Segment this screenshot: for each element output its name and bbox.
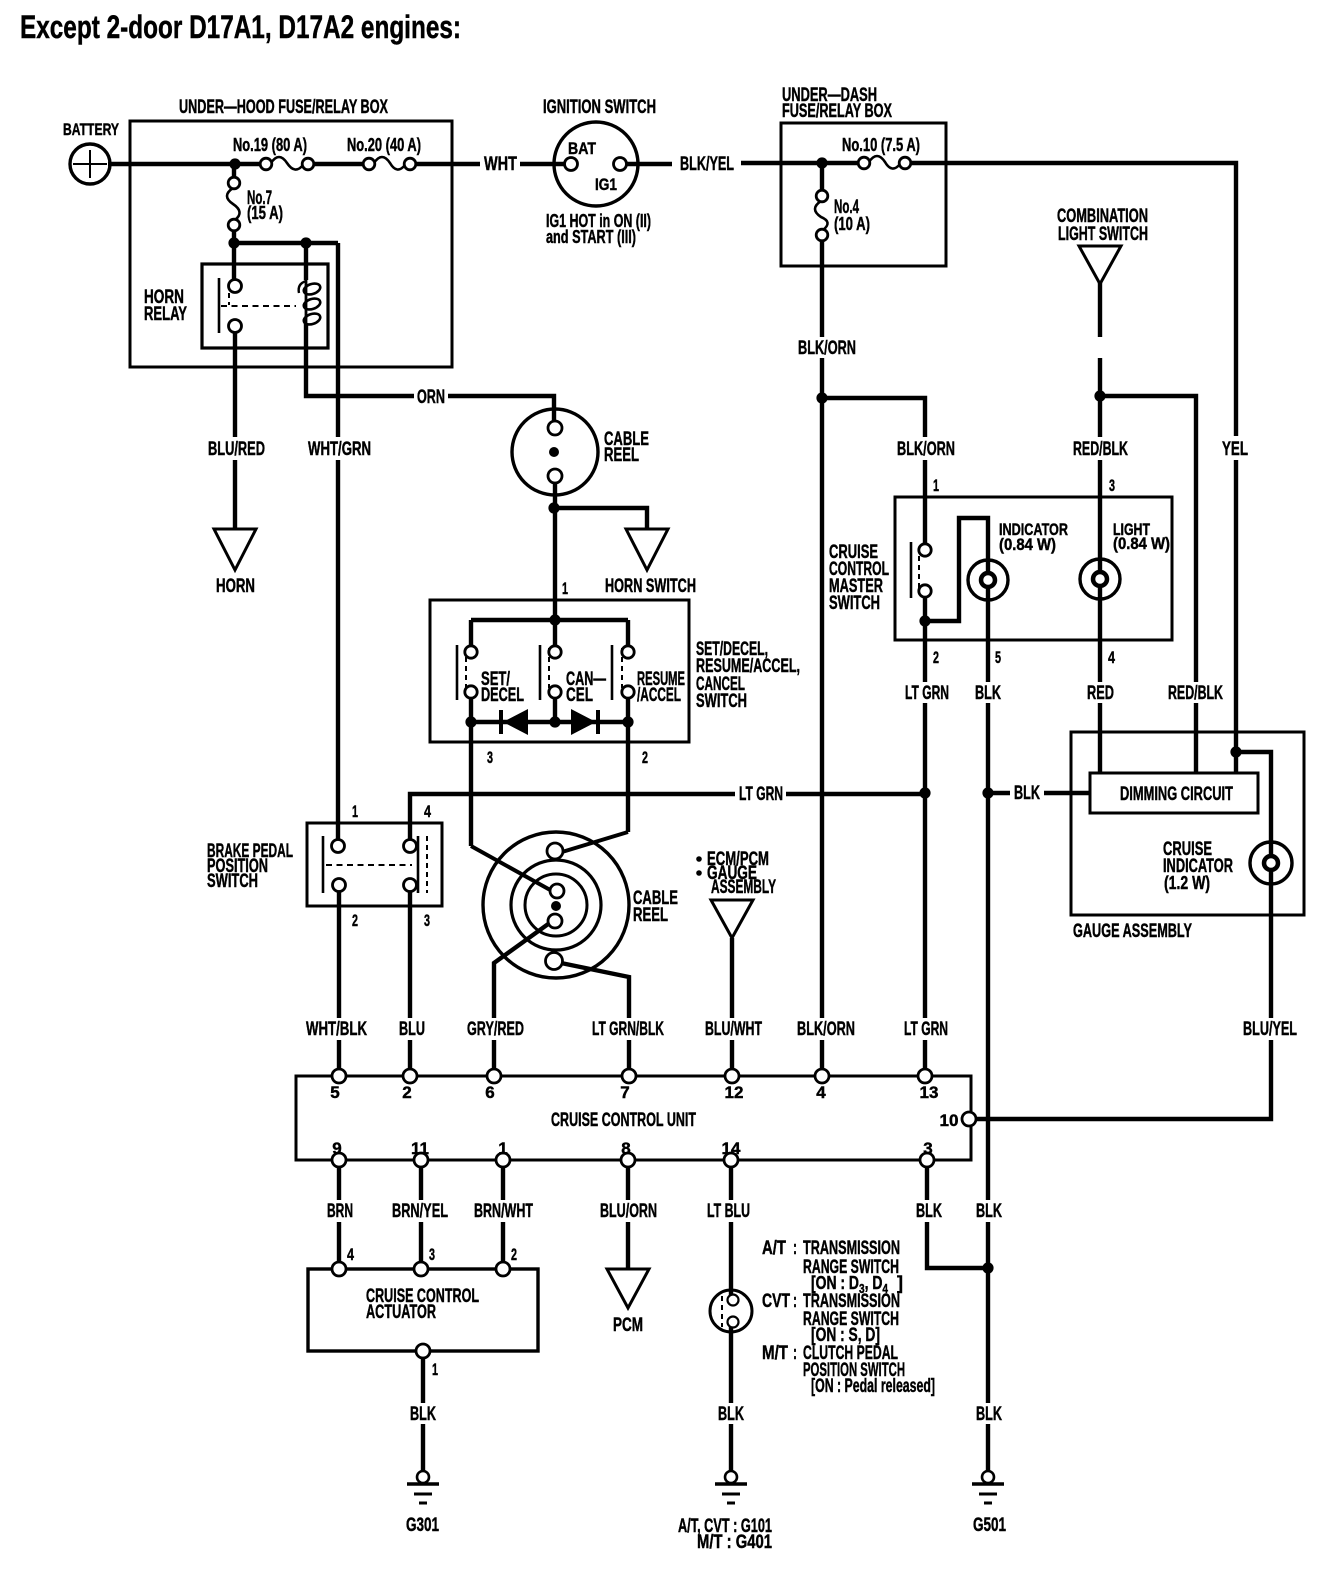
svg-text:2: 2	[642, 748, 648, 767]
switch bar SET/DECEL	[456, 645, 459, 700]
svg-text:ACTUATOR: ACTUATOR	[366, 1302, 436, 1323]
svg-text:14: 14	[722, 1139, 741, 1158]
svg-text:RED/BLK: RED/BLK	[1168, 683, 1223, 704]
svg-text:LT BLU: LT BLU	[707, 1201, 750, 1222]
wire BLK label segment into dimming circuit left edge	[1044, 791, 1090, 795]
svg-text:LT GRN/BLK: LT GRN/BLK	[592, 1019, 664, 1040]
wire BLK/ORN below label into master switch pin 1	[923, 460, 927, 545]
svg-text:CEL: CEL	[566, 685, 593, 706]
wire brake switch pin4 up and LT GRN right to master switch junction	[410, 794, 735, 846]
wire BLU/YEL label down and left to unit terminal 10	[976, 1040, 1271, 1119]
svg-text:LT GRN: LT GRN	[739, 784, 783, 805]
junction node BLK / dimming	[982, 787, 993, 798]
horn relay contact pins	[229, 280, 242, 293]
svg-text:BLK/ORN: BLK/ORN	[897, 439, 955, 460]
junction node LT GRN / terminal 13	[919, 787, 930, 798]
svg-text:BATTERY: BATTERY	[63, 120, 119, 139]
wire diagonal reel center lower pin to GRY/RED	[494, 922, 551, 1018]
cruise control unit terminal 4	[815, 1069, 829, 1083]
svg-text:BLK/YEL: BLK/YEL	[680, 154, 734, 175]
cruise control unit terminal 6	[487, 1069, 501, 1083]
PCM connector triangle	[607, 1269, 649, 1308]
cruise control unit terminal 3	[920, 1153, 934, 1167]
svg-text:REEL: REEL	[604, 445, 639, 466]
cable reel C415 bottom pin	[548, 469, 562, 483]
wire BLK label to ground G101/G401	[729, 1424, 733, 1471]
combination light switch connector triangle	[1079, 246, 1121, 284]
cruise control unit box	[296, 1076, 971, 1160]
cruise control unit terminal 13	[918, 1069, 932, 1083]
svg-text:2: 2	[402, 1083, 411, 1102]
svg-text:BRN/YEL: BRN/YEL	[392, 1201, 448, 1222]
svg-text:BLK: BLK	[410, 1404, 436, 1425]
cruise control actuator box	[308, 1269, 538, 1351]
wire BLK branch right to dimming circuit	[988, 791, 1010, 795]
diode bus wire y=722	[471, 720, 628, 724]
cable reel C721 bottom pin	[546, 953, 563, 970]
svg-text:LIGHT SWITCH: LIGHT SWITCH	[1058, 224, 1148, 245]
wire BLK/ORN label to junction y=398	[820, 358, 824, 398]
svg-text:IGNITION SWITCH: IGNITION SWITCH	[543, 97, 656, 118]
brake pedal switch bar left	[322, 836, 325, 893]
svg-text:BLK: BLK	[975, 683, 1001, 704]
clutch/transmission range switch pins	[728, 1295, 739, 1306]
svg-text:BLK: BLK	[718, 1404, 744, 1425]
brake pedal position switch box	[307, 823, 442, 906]
wire CANCEL lower contact to diode bus	[553, 697, 557, 722]
wire clutch/range switch to BLK label	[729, 1320, 733, 1403]
wire RED/BLK label to junction y=396	[1098, 358, 1102, 396]
wire ORN label to cable reel C415 top pin	[448, 396, 554, 428]
wire LT GRN label to unit terminal 13	[923, 1040, 927, 1076]
svg-text:SWITCH: SWITCH	[829, 593, 880, 614]
cruise control unit terminal 10	[962, 1112, 976, 1126]
cruise control unit terminal 14	[724, 1153, 738, 1167]
wire BLK/ORN label to unit terminal 4	[820, 1040, 824, 1076]
wire unit terminal 9 to BRN label	[337, 1160, 341, 1200]
wire fuse No.4 to BLK/ORN label	[820, 235, 824, 337]
svg-text:IG1: IG1	[595, 175, 617, 194]
wire pin 3 of switch down from diode bus	[469, 722, 473, 846]
brake pedal switch dashed link horizontal	[326, 864, 412, 866]
svg-text:BLU/RED: BLU/RED	[208, 439, 265, 460]
svg-text:HORN SWITCH: HORN SWITCH	[605, 576, 696, 597]
wire RESUME/ACCEL lower contact to diode bus	[626, 697, 630, 722]
junction node cable reel / horn switch	[548, 502, 559, 513]
cruise control unit terminal 9	[332, 1153, 346, 1167]
cable reel C415 center dot	[549, 447, 559, 457]
svg-text:TRANSMISSION: TRANSMISSION	[803, 1238, 900, 1259]
junction node YEL / cruise indicator	[1230, 746, 1241, 757]
svg-text:LT GRN: LT GRN	[904, 1019, 948, 1040]
actuator pin 3	[414, 1262, 428, 1276]
svg-text:BLK/ORN: BLK/ORN	[798, 338, 856, 359]
svg-text:1: 1	[498, 1139, 507, 1158]
svg-text:Except 2-door D17A1, D17A2 eng: Except 2-door D17A1, D17A2 engines:	[20, 9, 461, 45]
svg-text:5: 5	[330, 1083, 339, 1102]
svg-text:2: 2	[511, 1245, 517, 1264]
svg-text:BLK: BLK	[976, 1201, 1002, 1222]
diode D2 (points right)	[571, 709, 596, 735]
wire unit terminal 3 to BLK label	[925, 1160, 929, 1200]
clutch/transmission range switch body	[710, 1290, 752, 1332]
cruise control unit terminal 7	[622, 1069, 636, 1083]
svg-text:(10 A): (10 A)	[834, 214, 870, 234]
wire RED label into dimming circuit top	[1098, 703, 1102, 773]
svg-text:UNDER—HOOD FUSE/RELAY BOX: UNDER—HOOD FUSE/RELAY BOX	[179, 97, 388, 118]
svg-text:RED: RED	[1087, 683, 1114, 704]
svg-text:BLK: BLK	[916, 1201, 942, 1222]
wire relay coil bottom down and right to ORN label	[306, 323, 414, 396]
cable reel C415 body	[512, 409, 598, 495]
brake pedal switch contact pins	[332, 840, 345, 853]
svg-text:4: 4	[424, 802, 431, 821]
cruise control unit terminal 2	[403, 1069, 417, 1083]
wire BLK label to ground G501	[986, 1424, 990, 1471]
svg-text:10: 10	[940, 1111, 959, 1130]
actuator pin 1	[416, 1344, 430, 1358]
junction node diode bus center	[549, 716, 560, 727]
wire BRN/WHT label to actuator pin 2	[501, 1222, 505, 1269]
wire No.7 fuse tap down from rail	[232, 164, 236, 184]
ground G101/G401	[725, 1471, 737, 1483]
switch contact pins RESUME/ACCEL	[622, 646, 634, 658]
svg-text:WHT/BLK: WHT/BLK	[306, 1019, 367, 1040]
switch link dashed SET/DECEL	[465, 648, 467, 688]
wire fuse No.19 to fuse No.20	[308, 162, 369, 166]
actuator pin 2	[496, 1262, 510, 1276]
wire BLK main down to BLK label above junction	[986, 793, 990, 1200]
horn relay K1 box	[202, 264, 328, 348]
cable reel C721 top pin	[547, 843, 563, 859]
wire BLK/ORN main down to label above terminal 4	[820, 398, 824, 1018]
switch contact pins CANCEL	[549, 646, 561, 658]
wire actuator pin 1 to BLK label	[421, 1351, 425, 1403]
svg-text::: :	[793, 1343, 797, 1364]
cruise control unit terminal 8	[621, 1153, 635, 1167]
svg-text:6: 6	[485, 1083, 494, 1102]
svg-text:(0.84 W): (0.84 W)	[999, 535, 1056, 554]
wire drop to CANCEL upper contact	[553, 620, 557, 647]
svg-text:LT GRN: LT GRN	[905, 683, 949, 704]
wire unit terminal 14 to LT BLU label	[729, 1160, 733, 1200]
wire SET/DECEL lower contact to diode bus	[469, 697, 473, 722]
svg-text:M/T: M/T	[762, 1343, 788, 1364]
wire LT GRN/BLK label to unit terminal 7	[627, 1040, 631, 1076]
switch link dashed RESUME/ACCEL	[621, 648, 623, 688]
svg-text:CVT: CVT	[762, 1291, 790, 1312]
wire LT GRN junction down to label above terminal 13	[923, 793, 927, 1018]
svg-text:PCM: PCM	[613, 1315, 643, 1336]
wire BLU label to unit terminal 2	[408, 1040, 412, 1076]
ignition switch IG1 pin	[614, 158, 627, 171]
svg-text:BAT: BAT	[568, 139, 597, 158]
svg-text:1: 1	[933, 476, 939, 495]
wire master pin 2 down to LT GRN label	[923, 621, 927, 682]
junction node BLK/ORN branch	[816, 392, 827, 403]
wire fuse No.20 to WHT label	[410, 162, 480, 166]
wire diagonal pin3 to cable reel C721 center upper pin	[471, 846, 552, 891]
svg-text:WHT: WHT	[484, 154, 517, 175]
wire WHT/BLK label to unit terminal 5	[337, 1040, 341, 1076]
wire LT GRN label to junction y=793	[923, 703, 927, 793]
junction node No.7/horn relay	[228, 237, 239, 248]
battery symbol	[70, 144, 110, 184]
set/decel-resume/accel-cancel switch box	[430, 600, 689, 742]
horn relay coil loops	[305, 280, 308, 330]
wire bus inside switch box at y=620	[471, 618, 628, 622]
wire BLK label down and right to BLK junction	[927, 1222, 988, 1268]
fuse No.10 (7.5 A)	[869, 156, 900, 169]
wire drop to SET/DECEL upper contact	[469, 620, 473, 647]
svg-text:(0.84 W): (0.84 W)	[1113, 534, 1170, 553]
svg-text:8: 8	[621, 1139, 630, 1158]
wire GRY/RED label to unit terminal 6	[492, 1040, 496, 1076]
fuse No.19 (80 A)	[271, 157, 303, 170]
svg-text:GAUGE ASSEMBLY: GAUGE ASSEMBLY	[1073, 921, 1192, 942]
cruise control unit terminal 5	[332, 1069, 346, 1083]
junction node rail/No.7	[229, 158, 240, 169]
wire master switch tee to indicator bulb	[925, 518, 988, 621]
svg-text:13: 13	[920, 1083, 939, 1102]
wire No.7 fuse to horn relay contact, tee at y=243	[232, 225, 236, 286]
svg-text:3: 3	[487, 748, 493, 767]
cruise control unit terminal 12	[725, 1069, 739, 1083]
wire BLK label to junction y=1268	[986, 1222, 990, 1268]
wire RED/BLK branch right down toward dimming circuit	[1100, 396, 1196, 682]
cable reel C721 center upper pin	[550, 884, 564, 898]
junction node diode bus left	[465, 716, 476, 727]
svg-text:4: 4	[347, 1245, 354, 1264]
svg-text:DECEL: DECEL	[481, 685, 524, 706]
horn connector triangle	[214, 529, 256, 570]
svg-text:No.20 (40 A): No.20 (40 A)	[347, 135, 421, 155]
svg-text:YEL: YEL	[1222, 439, 1248, 460]
svg-text:BRN/WHT: BRN/WHT	[474, 1201, 533, 1222]
cruise control unit terminal 11	[414, 1153, 428, 1167]
wire unit terminal 8 to BLU/ORN label	[626, 1160, 630, 1200]
wire relay coil feed down	[304, 243, 308, 280]
wire battery to fuse No.19	[108, 162, 266, 166]
horn switch connector triangle	[626, 529, 668, 570]
svg-text:11: 11	[411, 1139, 429, 1158]
svg-text:BLK: BLK	[976, 1404, 1002, 1425]
wire BRN/YEL label to actuator pin 3	[419, 1222, 423, 1269]
svg-text:GRY/RED: GRY/RED	[467, 1019, 524, 1040]
wire LT BLU label to clutch/range switch	[729, 1222, 733, 1302]
gauge assembly box	[1071, 732, 1304, 915]
svg-text:BLK/ORN: BLK/ORN	[797, 1019, 855, 1040]
wire BLK label to ground G301	[421, 1424, 425, 1471]
svg-text:SWITCH: SWITCH	[207, 871, 258, 892]
under-hood fuse/relay box outline	[130, 121, 452, 367]
svg-text:4: 4	[816, 1083, 826, 1102]
wire BLK/ORN branch right to master switch pin 1 column	[822, 398, 925, 437]
wire unit terminal 11 to BRN/YEL label	[419, 1160, 423, 1200]
ground G301	[417, 1471, 429, 1483]
ground G501	[982, 1471, 994, 1483]
svg-text:BLK: BLK	[1014, 783, 1040, 804]
clutch/transmission range switch dashed link	[721, 1296, 723, 1327]
svg-text:7: 7	[620, 1083, 629, 1102]
wire brake switch pin1 stub into box	[336, 846, 340, 852]
svg-text:No.10 (7.5 A): No.10 (7.5 A)	[842, 135, 920, 155]
wire ECM/PCM triangle to BLU/WHT label	[730, 938, 734, 1018]
wire YEL below label to gauge assembly junction	[1234, 460, 1238, 773]
svg-text:1: 1	[562, 579, 568, 598]
under-dash fuse/relay box outline	[781, 123, 946, 266]
wire brake switch pin2 to WHT/BLK label	[337, 891, 341, 1018]
svg-text:A/T: A/T	[762, 1238, 786, 1259]
wire drop to RESUME/ACCEL upper contact	[626, 620, 630, 647]
svg-text:3: 3	[424, 911, 430, 930]
master switch contact bar	[910, 542, 913, 598]
wire YEL branch right to cruise indicator bulb	[1236, 752, 1271, 843]
cable reel C721 center dot	[551, 901, 561, 911]
wire indicator bulb to master pin 5 / BLK label	[986, 599, 990, 682]
wire tee y=243 to coil and WHT/GRN corner	[234, 241, 338, 245]
actuator pin 4	[332, 1262, 346, 1276]
wire combination light switch to RED/BLK label	[1098, 282, 1102, 337]
fuse No.20 (40 A)	[374, 157, 405, 170]
svg-text:ASSEMBLY: ASSEMBLY	[711, 877, 776, 898]
switch contact pins SET/DECEL	[465, 646, 477, 658]
svg-text:9: 9	[332, 1139, 341, 1158]
cable reel C721 middle ring	[511, 860, 601, 950]
wire BLU/WHT label to unit terminal 12	[730, 1040, 734, 1076]
svg-text:5: 5	[995, 648, 1001, 667]
svg-text:HORN: HORN	[216, 576, 255, 597]
cruise indicator bulb (1.2 W)	[1250, 842, 1292, 884]
light bulb (0.84 W)	[1080, 559, 1120, 599]
wire BLU/RED label to horn connector triangle	[233, 460, 237, 530]
svg-text:3: 3	[1109, 476, 1115, 495]
cruise control master switch box	[895, 497, 1172, 640]
junction node master switch pin2	[919, 615, 930, 626]
junction node rail/No.4	[816, 157, 827, 168]
svg-text:]: ]	[897, 1273, 903, 1293]
wire WHT label to ignition BAT pin	[520, 162, 571, 166]
wire WHT/GRN upper segment x=338	[336, 243, 340, 437]
wire BLK/YEL label to under-dash box / fuse No.10	[741, 161, 864, 165]
indicator bulb (0.84 W)	[968, 560, 1008, 600]
wire cable reel C415 bottom pin to switch box, tee to horn switch	[553, 476, 557, 620]
svg-text:DIMMING CIRCUIT: DIMMING CIRCUIT	[1120, 784, 1233, 805]
wire BRN label to actuator pin 4	[337, 1222, 341, 1269]
master switch link dashed	[918, 547, 920, 594]
wire unit terminal 1 to BRN/WHT label	[501, 1160, 505, 1200]
cruise control unit terminal 1	[496, 1153, 510, 1167]
svg-text:M/T : G401: M/T : G401	[697, 1532, 772, 1553]
cable reel C721 outer ring	[483, 832, 629, 978]
svg-text:BLU: BLU	[399, 1019, 425, 1040]
svg-text:WHT/GRN: WHT/GRN	[308, 439, 371, 460]
diode D1 (points left)	[503, 709, 528, 735]
svg-text:1: 1	[352, 802, 358, 821]
cable reel C721 center lower pin	[548, 914, 562, 928]
junction node RED/BLK branch	[1094, 390, 1105, 401]
wire pin 2 of switch down	[626, 722, 630, 832]
switch bar RESUME/ACCEL	[611, 645, 614, 700]
wire diagonal reel bottom pin to LT GRN/BLK	[561, 963, 629, 1018]
wire master switch lower contact to pin 2 tee	[923, 596, 927, 621]
horn relay contact bar	[218, 278, 221, 333]
junction node diode bus right	[622, 716, 633, 727]
svg-text:G301: G301	[406, 1515, 439, 1536]
svg-text:12: 12	[725, 1083, 744, 1102]
wire fuse No.10 to right corner, down to YEL	[905, 163, 1236, 436]
svg-text:ORN: ORN	[417, 387, 445, 408]
wire RED/BLK below junction into master switch pin 3	[1098, 396, 1102, 437]
fuse No.4 (10 A)	[815, 201, 828, 230]
switch link dashed CANCEL	[548, 648, 550, 688]
junction node switch box pin1 bus	[549, 614, 560, 625]
svg-text:SWITCH: SWITCH	[696, 691, 747, 712]
wire LT GRN label to junction at x=926	[786, 792, 926, 796]
svg-text:BLU/ORN: BLU/ORN	[600, 1201, 657, 1222]
ignition switch body	[554, 122, 638, 206]
svg-text::: :	[793, 1291, 797, 1312]
svg-text:FUSE/RELAY BOX: FUSE/RELAY BOX	[782, 101, 892, 122]
brake pedal switch dashed link vertical	[426, 836, 428, 893]
svg-text:1: 1	[432, 1360, 438, 1379]
svg-text:REEL: REEL	[633, 905, 668, 926]
svg-text:[ON : Pedal released]: [ON : Pedal released]	[811, 1376, 935, 1397]
ECM/PCM gauge assembly connector triangle	[711, 900, 753, 938]
cable reel C721 inner ring	[525, 874, 587, 936]
svg-text:2: 2	[352, 911, 358, 930]
wire diagonal pin2 to cable reel C721 top pin	[562, 832, 628, 852]
svg-text:3: 3	[923, 1139, 932, 1158]
svg-text:4: 4	[1108, 648, 1115, 667]
brake pedal switch bar right	[417, 836, 420, 893]
svg-text:2: 2	[933, 648, 939, 667]
ignition switch BAT pin	[565, 158, 578, 171]
svg-text:/ACCEL: /ACCEL	[637, 685, 681, 706]
wire ignition IG1 pin to BLK/YEL label	[620, 162, 672, 166]
svg-text:RELAY: RELAY	[144, 304, 187, 325]
label ECM/PCM GAUGE ASSEMBLY bullets	[696, 856, 702, 862]
svg-text::: :	[793, 1238, 797, 1259]
wire horn relay contact to BLU/RED label	[233, 332, 237, 437]
wire WHT/GRN lower segment to brake pedal switch pin 1	[336, 460, 340, 846]
svg-text:3: 3	[429, 1245, 435, 1264]
junction node coil feed	[300, 237, 311, 248]
wire BLK junction down to label above G501	[986, 1268, 990, 1403]
svg-text:G501: G501	[973, 1515, 1006, 1536]
wire branch to horn switch triangle	[554, 508, 647, 530]
svg-text:No.19 (80 A): No.19 (80 A)	[233, 135, 307, 155]
svg-text:BLU/YEL: BLU/YEL	[1243, 1019, 1297, 1040]
wire RED/BLK branch below label into dimming circuit	[1194, 703, 1198, 773]
svg-text:(1.2 W): (1.2 W)	[1164, 873, 1210, 893]
dimming circuit box	[1090, 773, 1258, 813]
svg-text:RED/BLK: RED/BLK	[1073, 439, 1128, 460]
switch bar CANCEL	[539, 645, 542, 700]
wire fuse No.4 tap down from rail	[820, 163, 824, 196]
svg-text:BLU/WHT: BLU/WHT	[705, 1019, 762, 1040]
fuse No.7 (15 A)	[227, 188, 240, 220]
svg-text:CRUISE CONTROL UNIT: CRUISE CONTROL UNIT	[551, 1110, 696, 1131]
svg-text:BRN: BRN	[327, 1201, 353, 1222]
master switch contact pins	[919, 544, 931, 556]
wire BLK label down to junction y=793	[986, 703, 990, 793]
svg-text:and START (III): and START (III)	[546, 227, 636, 247]
junction node BLK grounds	[982, 1262, 993, 1273]
wire BLU/ORN label to PCM triangle	[626, 1222, 630, 1270]
svg-text:(15 A): (15 A)	[247, 203, 283, 223]
cable reel C415 top pin	[548, 421, 562, 435]
